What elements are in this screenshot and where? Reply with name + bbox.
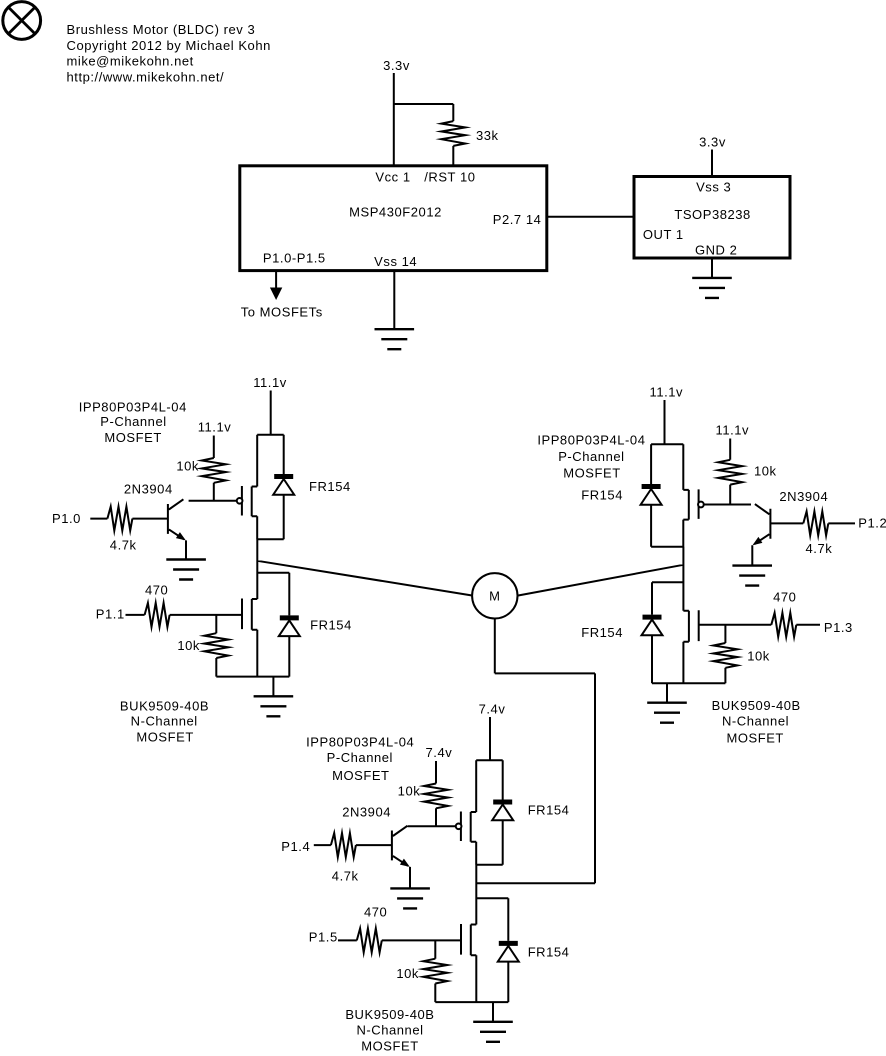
svg-text:BUK9509-40B: BUK9509-40B: [712, 698, 801, 713]
svg-text:P1.2: P1.2: [858, 516, 886, 531]
svg-text:N-Channel: N-Channel: [356, 1023, 423, 1038]
svg-text:P-Channel: P-Channel: [100, 414, 166, 429]
svg-text:P1.0-P1.5: P1.0-P1.5: [263, 250, 326, 265]
svg-text:IPP80P03P4L-04: IPP80P03P4L-04: [306, 735, 414, 750]
svg-text:MOSFET: MOSFET: [332, 768, 389, 783]
svg-text:2N3904: 2N3904: [342, 805, 391, 820]
svg-text:To MOSFETs: To MOSFETs: [241, 304, 323, 319]
svg-text:P1.5: P1.5: [309, 930, 338, 945]
svg-text:IPP80P03P4L-04: IPP80P03P4L-04: [537, 432, 645, 447]
svg-text:mike@mikekohn.net: mike@mikekohn.net: [67, 54, 194, 69]
svg-text:33k: 33k: [476, 128, 499, 143]
svg-text:10k: 10k: [176, 459, 199, 474]
svg-text:11.1v: 11.1v: [716, 423, 750, 438]
svg-text:IPP80P03P4L-04: IPP80P03P4L-04: [79, 399, 187, 414]
svg-text:11.1v: 11.1v: [198, 420, 232, 435]
svg-text:10k: 10k: [398, 784, 421, 799]
svg-text:470: 470: [364, 905, 387, 920]
svg-text:10k: 10k: [396, 966, 419, 981]
svg-text:Vss 3: Vss 3: [696, 180, 731, 195]
svg-text:Vss 14: Vss 14: [374, 254, 417, 269]
svg-text:3.3v: 3.3v: [699, 135, 726, 150]
svg-text:3.3v: 3.3v: [383, 58, 410, 73]
svg-text:Brushless Motor (BLDC) rev 3: Brushless Motor (BLDC) rev 3: [67, 22, 256, 37]
svg-text:4.7k: 4.7k: [332, 868, 359, 883]
svg-text:10k: 10k: [747, 649, 770, 664]
svg-text:P1.1: P1.1: [96, 606, 125, 621]
svg-text:MOSFET: MOSFET: [136, 729, 193, 744]
svg-text:BUK9509-40B: BUK9509-40B: [120, 699, 209, 714]
svg-text:P1.3: P1.3: [824, 620, 853, 635]
svg-text:11.1v: 11.1v: [650, 384, 684, 399]
svg-text:10k: 10k: [177, 638, 200, 653]
svg-text:4.7k: 4.7k: [806, 541, 833, 556]
svg-text:FR154: FR154: [581, 625, 623, 640]
svg-text:N-Channel: N-Channel: [131, 714, 198, 729]
svg-text:M: M: [489, 589, 500, 604]
svg-text:N-Channel: N-Channel: [722, 714, 789, 729]
svg-text:P1.0: P1.0: [52, 511, 81, 526]
svg-text:Copyright 2012 by Michael Kohn: Copyright 2012 by Michael Kohn: [67, 38, 271, 53]
svg-text:7.4v: 7.4v: [479, 701, 506, 716]
svg-text:P-Channel: P-Channel: [558, 449, 624, 464]
svg-text:FR154: FR154: [528, 945, 570, 960]
svg-text:TSOP38238: TSOP38238: [674, 207, 751, 222]
svg-text:MOSFET: MOSFET: [361, 1039, 418, 1054]
svg-text:470: 470: [145, 583, 168, 598]
svg-text:7.4v: 7.4v: [426, 745, 453, 760]
svg-text:GND 2: GND 2: [695, 242, 737, 257]
svg-text:P-Channel: P-Channel: [327, 750, 393, 765]
svg-text:http://www.mikekohn.net/: http://www.mikekohn.net/: [67, 69, 225, 84]
svg-text:FR154: FR154: [581, 488, 623, 503]
svg-text:Vcc 1: Vcc 1: [375, 169, 410, 184]
svg-text:/RST 10: /RST 10: [424, 169, 475, 184]
svg-text:P1.4: P1.4: [281, 839, 310, 854]
svg-text:P2.7 14: P2.7 14: [493, 212, 542, 227]
svg-text:FR154: FR154: [310, 617, 352, 632]
svg-text:MSP430F2012: MSP430F2012: [349, 205, 442, 220]
svg-text:MOSFET: MOSFET: [104, 430, 161, 445]
svg-text:FR154: FR154: [309, 479, 351, 494]
svg-text:2N3904: 2N3904: [124, 481, 173, 496]
svg-text:BUK9509-40B: BUK9509-40B: [345, 1007, 434, 1022]
svg-text:11.1v: 11.1v: [253, 375, 287, 390]
svg-text:MOSFET: MOSFET: [726, 730, 783, 745]
svg-text:10k: 10k: [754, 464, 777, 479]
svg-text:470: 470: [773, 589, 796, 604]
svg-text:MOSFET: MOSFET: [563, 466, 620, 481]
svg-text:OUT 1: OUT 1: [643, 227, 684, 242]
svg-text:4.7k: 4.7k: [110, 538, 137, 553]
svg-text:2N3904: 2N3904: [779, 489, 828, 504]
svg-text:FR154: FR154: [528, 802, 570, 817]
